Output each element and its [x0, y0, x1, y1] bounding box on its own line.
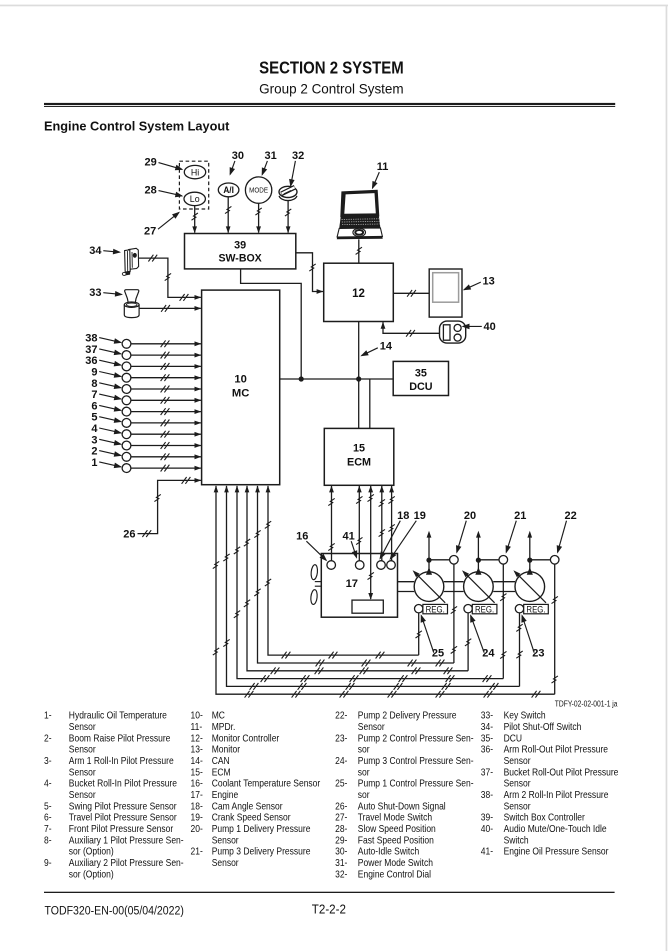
svg-text:Bucket Roll-Out Pilot Pressure: Bucket Roll-Out Pilot Pressure	[504, 767, 619, 778]
svg-text:Auxiliary 1 Pilot Pressure Sen: Auxiliary 1 Pilot Pressure Sen-	[69, 835, 184, 846]
footer document number	[45, 905, 185, 918]
svg-text:24: 24	[482, 647, 495, 659]
label 5	[91, 412, 122, 424]
svg-text:8: 8	[91, 378, 97, 390]
svg-text:29: 29	[145, 156, 157, 168]
sensor circle 3	[122, 441, 131, 450]
svg-text:33-: 33-	[481, 710, 493, 721]
svg-text:REG.: REG.	[526, 604, 545, 615]
svg-text:17: 17	[346, 578, 358, 590]
wire sensor 37 to MC	[131, 352, 201, 359]
svg-text:Pilot Shut-Off Switch: Pilot Shut-Off Switch	[504, 721, 582, 732]
audio mute switch icon 40	[440, 321, 466, 343]
svg-text:7-: 7-	[44, 823, 52, 834]
label 6	[91, 400, 122, 412]
svg-text:36: 36	[85, 355, 97, 367]
svg-text:Slow Speed Position: Slow Speed Position	[358, 823, 436, 834]
svg-text:sor (Option): sor (Option)	[69, 846, 114, 857]
svg-text:23-: 23-	[335, 733, 347, 744]
svg-text:30: 30	[232, 150, 244, 162]
svg-text:ECM: ECM	[347, 456, 371, 468]
svg-text:MODE: MODE	[249, 187, 268, 195]
svg-text:Sensor: Sensor	[212, 835, 239, 846]
pressure sensor circle 21	[499, 556, 508, 565]
label 2	[91, 446, 122, 458]
svg-text:CAN: CAN	[212, 755, 230, 766]
svg-text:Pump 3 Delivery Pressure: Pump 3 Delivery Pressure	[212, 846, 311, 857]
svg-text:7: 7	[91, 389, 97, 401]
svg-text:Pump 3 Control Pressure Sen-: Pump 3 Control Pressure Sen-	[358, 755, 474, 766]
svg-text:Engine Control Dial: Engine Control Dial	[358, 869, 431, 880]
pump drive shaft lines	[398, 582, 516, 592]
svg-text:Sensor: Sensor	[69, 767, 96, 778]
svg-text:5-: 5-	[44, 801, 52, 812]
svg-text:Power Mode Switch: Power Mode Switch	[358, 857, 433, 868]
wire 12 to monitor 13	[393, 290, 429, 297]
svg-text:31-: 31-	[335, 857, 347, 868]
svg-text:Monitor: Monitor	[212, 744, 240, 755]
regulator circle pump 2	[464, 605, 472, 613]
wire Lo switch to SW-BOX	[192, 206, 198, 234]
svg-text:12: 12	[352, 288, 365, 300]
svg-text:34: 34	[89, 245, 102, 257]
svg-text:16-: 16-	[191, 778, 203, 789]
svg-text:Pump 2 Delivery Pressure: Pump 2 Delivery Pressure	[358, 710, 457, 721]
label 37	[85, 344, 122, 356]
svg-text:8-: 8-	[44, 835, 52, 846]
wire sensor 5 to MC	[131, 420, 201, 427]
svg-text:Lo: Lo	[190, 194, 200, 204]
svg-text:11: 11	[377, 161, 389, 173]
laptop MPDr 11	[337, 190, 383, 239]
svg-text:Key Switch: Key Switch	[504, 710, 546, 721]
wire SW-BOX bottom to node A	[241, 269, 302, 379]
svg-text:38: 38	[85, 333, 97, 345]
svg-text:41-: 41-	[481, 846, 493, 857]
svg-text:Auxiliary 2 Pilot Pressure Sen: Auxiliary 2 Pilot Pressure Sen-	[69, 857, 184, 868]
cooling fan	[310, 564, 321, 604]
footer page number	[312, 902, 346, 917]
svg-text:10-: 10-	[191, 710, 203, 721]
svg-text:Sensor: Sensor	[358, 721, 385, 732]
svg-text:Hydraulic Oil Temperature: Hydraulic Oil Temperature	[69, 710, 167, 721]
harness bus wire 1 MC to pump area	[265, 486, 419, 659]
label 16	[296, 531, 327, 562]
svg-text:Engine Control System Layout: Engine Control System Layout	[44, 118, 230, 133]
footer rule	[44, 892, 615, 893]
svg-text:Audio Mute/One-Touch Idle: Audio Mute/One-Touch Idle	[504, 823, 607, 834]
svg-text:Auto Shut-Down Signal: Auto Shut-Down Signal	[358, 801, 446, 812]
wire 40 to 12	[381, 322, 440, 337]
svg-text:Fast Speed Position: Fast Speed Position	[358, 835, 434, 846]
svg-text:10: 10	[234, 373, 246, 385]
regulator circle pump 3	[515, 605, 523, 613]
wire CAN 14 from 12 to ECM	[358, 322, 360, 429]
wire sensor 22 down to bus	[552, 564, 558, 694]
label 30	[230, 150, 244, 176]
svg-text:41: 41	[342, 531, 354, 543]
node B junction dot	[356, 376, 361, 381]
wire laptop to monitor controller 12	[356, 239, 362, 263]
svg-text:23: 23	[532, 647, 544, 659]
wire dial 32 to SW-BOX	[285, 200, 291, 233]
wire A/I to SW-BOX	[225, 197, 231, 233]
label 13	[463, 275, 495, 290]
svg-text:Engine: Engine	[212, 789, 238, 800]
harness bus wire 3 MC to pump area	[244, 486, 468, 675]
svg-text:REG.: REG.	[475, 604, 494, 615]
svg-text:37: 37	[85, 344, 97, 356]
sensor circle 1	[122, 464, 131, 473]
svg-text:20: 20	[464, 510, 476, 522]
svg-text:Front Pilot Pressure Sensor: Front Pilot Pressure Sensor	[69, 823, 173, 834]
svg-text:Sensor: Sensor	[504, 755, 531, 766]
key switch icon 33	[124, 290, 139, 318]
sensor circle 6	[122, 407, 131, 416]
sensor circle 5	[122, 419, 131, 428]
svg-text:Bucket Roll-In Pilot Pressure: Bucket Roll-In Pilot Pressure	[69, 778, 177, 789]
label 41	[342, 531, 357, 559]
harness bus wire 5 MC to pump area	[223, 486, 519, 690]
wire sensor 9 to MC	[131, 374, 201, 381]
svg-text:40: 40	[484, 321, 496, 333]
svg-text:A/I: A/I	[223, 185, 234, 196]
svg-text:Pump 1 Control Pressure Sen-: Pump 1 Control Pressure Sen-	[358, 778, 474, 789]
svg-text:Sensor: Sensor	[69, 789, 96, 800]
svg-text:3-: 3-	[44, 755, 52, 766]
label 22	[557, 510, 577, 554]
label 38	[85, 333, 122, 345]
svg-text:26-: 26-	[335, 801, 347, 812]
svg-text:19-: 19-	[191, 812, 203, 823]
svg-text:25: 25	[432, 647, 444, 659]
svg-text:TODF320-EN-00(05/04/2022): TODF320-EN-00(05/04/2022)	[45, 905, 185, 918]
svg-text:30-: 30-	[335, 846, 347, 857]
label 21	[506, 510, 527, 554]
svg-text:31: 31	[264, 150, 276, 162]
wire sensor 6 to MC	[131, 408, 201, 415]
svg-text:Travel Mode Switch: Travel Mode Switch	[358, 812, 432, 823]
svg-text:Travel Pilot Pressure Sensor: Travel Pilot Pressure Sensor	[69, 812, 177, 823]
wire sensor 20 down to bus	[451, 564, 457, 663]
svg-text:22: 22	[564, 510, 576, 522]
svg-text:28: 28	[145, 184, 157, 196]
svg-text:38-: 38-	[481, 789, 493, 800]
svg-text:Arm 1 Roll-In Pilot Pressure: Arm 1 Roll-In Pilot Pressure	[69, 755, 174, 766]
wire sensor 8 to MC	[131, 386, 201, 393]
Hi button ellipse	[184, 165, 205, 178]
svg-text:37-: 37-	[481, 767, 493, 778]
SW-BOX controller box 39	[185, 234, 296, 269]
figure code	[555, 699, 618, 709]
svg-text:sor: sor	[358, 789, 370, 800]
svg-text:4-: 4-	[44, 778, 52, 789]
sensor circle 4	[122, 430, 131, 439]
wire sensor 1 to MC	[131, 465, 201, 472]
wire sensor 3 to MC	[131, 442, 201, 449]
label 33	[89, 287, 123, 299]
sensor circle 2	[122, 452, 131, 461]
svg-text:Switch: Switch	[504, 835, 529, 846]
wire pump 3 node to sensor 22	[530, 559, 551, 561]
svg-text:sor (Option): sor (Option)	[69, 869, 114, 880]
REG box pump 2	[472, 604, 497, 615]
svg-text:Crank Speed Sensor: Crank Speed Sensor	[212, 812, 291, 823]
svg-text:Sensor: Sensor	[504, 801, 531, 812]
pump 2 node dot	[476, 558, 481, 563]
wire ECM to 16 coolant temp	[328, 486, 334, 561]
svg-text:Switch Box Controller: Switch Box Controller	[504, 812, 585, 823]
label 29	[145, 156, 184, 170]
MODE switch 31	[245, 177, 271, 203]
pump 2 circle	[464, 572, 494, 602]
label 4	[91, 423, 122, 435]
A/I switch 30	[218, 183, 239, 197]
wire ECM to injector	[368, 486, 374, 600]
svg-text:13-: 13-	[191, 744, 203, 755]
pump 2 displacement arrow	[462, 570, 495, 603]
svg-text:25-: 25-	[335, 778, 347, 789]
engine injector rect	[352, 600, 383, 613]
svg-text:11-: 11-	[191, 721, 203, 732]
svg-text:T2-2-2: T2-2-2	[312, 902, 346, 917]
wire sensor 2 to MC	[131, 453, 201, 460]
label 31	[262, 150, 277, 176]
svg-text:15: 15	[353, 443, 365, 455]
label 40	[462, 321, 496, 333]
engine sensor circle 18	[377, 561, 386, 570]
svg-text:Engine Oil Pressure Sensor: Engine Oil Pressure Sensor	[504, 846, 609, 857]
wire 33 to MC	[139, 305, 201, 312]
monitor controller box 12	[324, 263, 394, 321]
wire regulator pump 1 down to bus	[416, 613, 422, 655]
label 25	[421, 614, 444, 659]
svg-text:Sensor: Sensor	[69, 744, 96, 755]
label 20	[456, 510, 476, 554]
header double rule	[44, 103, 615, 107]
pilot shut-off switch icon 34	[122, 248, 138, 275]
svg-text:40-: 40-	[481, 823, 493, 834]
svg-text:9: 9	[91, 367, 97, 379]
label 7	[91, 389, 122, 401]
svg-text:TDFY-02-02-001-1 ja: TDFY-02-02-001-1 ja	[555, 699, 618, 709]
svg-text:35-: 35-	[481, 733, 493, 744]
svg-text:Arm 2 Roll-In Pilot Pressure: Arm 2 Roll-In Pilot Pressure	[504, 789, 609, 800]
svg-text:Sensor: Sensor	[212, 857, 239, 868]
monitor 13	[429, 269, 462, 317]
label 9	[91, 367, 122, 379]
pump 3 node dot	[527, 558, 532, 563]
svg-text:MPDr.: MPDr.	[212, 721, 236, 732]
label 23	[521, 614, 544, 659]
engine sensor circle 16	[327, 561, 336, 570]
svg-text:1-: 1-	[44, 710, 52, 721]
ECM box 15	[324, 428, 394, 485]
svg-text:33: 33	[89, 287, 101, 299]
sensor circle 8	[122, 385, 131, 394]
harness bus wire 4 MC to pump area	[234, 486, 504, 682]
wire sensor 38 to MC	[131, 340, 201, 347]
svg-text:2: 2	[91, 446, 97, 458]
svg-text:SW-BOX: SW-BOX	[218, 253, 262, 265]
svg-text:14-: 14-	[191, 755, 203, 766]
svg-text:35: 35	[415, 367, 427, 379]
extra slash on coolant wire	[328, 543, 334, 550]
wire ECM to 19 crank speed	[388, 486, 394, 561]
svg-text:13: 13	[483, 275, 495, 287]
REG box pump 3	[524, 604, 549, 615]
label 18	[380, 510, 410, 560]
svg-text:Pump 1 Delivery Pressure: Pump 1 Delivery Pressure	[212, 823, 311, 834]
svg-text:39-: 39-	[481, 812, 493, 823]
wire MODE to SW-BOX	[255, 204, 261, 234]
svg-text:18: 18	[397, 510, 409, 522]
wire sensor 21 down to bus	[500, 564, 506, 679]
svg-text:2-: 2-	[44, 733, 52, 744]
sensor circle 37	[122, 351, 131, 360]
node A junction dot	[299, 376, 304, 381]
regulator circle pump 1	[415, 605, 423, 613]
engine box 17	[321, 554, 397, 618]
wire SW-BOX to 12	[296, 253, 324, 294]
label 26	[123, 529, 135, 541]
page heading Engine Control System Layout	[44, 118, 230, 133]
label 36	[85, 355, 122, 367]
label 14	[360, 341, 393, 357]
svg-text:MC: MC	[212, 710, 226, 721]
label 32	[289, 150, 304, 188]
wire sensor 4 to MC	[131, 431, 201, 438]
svg-text:6-: 6-	[44, 812, 52, 823]
pump 3 displacement arrow	[513, 570, 546, 603]
svg-text:36-: 36-	[481, 744, 493, 755]
svg-text:19: 19	[414, 510, 426, 522]
svg-text:Cam Angle Sensor: Cam Angle Sensor	[212, 801, 283, 812]
svg-text:20-: 20-	[191, 823, 203, 834]
svg-text:3: 3	[91, 434, 97, 446]
svg-text:SECTION 2 SYSTEM: SECTION 2 SYSTEM	[259, 59, 404, 78]
wire regulator pump 2 down to bus	[465, 613, 471, 671]
svg-text:4: 4	[91, 423, 98, 435]
label 1	[91, 457, 122, 469]
svg-text:12-: 12-	[191, 733, 203, 744]
MC box 10	[202, 290, 280, 485]
svg-text:6: 6	[91, 400, 97, 412]
svg-text:5: 5	[91, 412, 97, 424]
wire sensor 36 to MC	[131, 363, 201, 370]
label 3	[91, 434, 122, 446]
svg-text:Boom Raise Pilot Pressure: Boom Raise Pilot Pressure	[69, 733, 171, 744]
label 8	[91, 378, 122, 390]
svg-text:34-: 34-	[481, 721, 493, 732]
svg-text:32-: 32-	[335, 869, 347, 880]
svg-text:16: 16	[296, 531, 308, 543]
svg-text:REG.: REG.	[426, 604, 445, 615]
DCU box 35	[393, 361, 448, 395]
svg-text:sor: sor	[358, 744, 370, 755]
wire auto shut-down 26 to MC	[138, 477, 202, 537]
svg-text:Sensor: Sensor	[69, 721, 96, 732]
svg-text:1: 1	[91, 457, 97, 469]
label 28	[145, 184, 184, 197]
legend	[44, 710, 618, 879]
label 19	[390, 510, 426, 560]
pressure sensor circle 20	[450, 556, 459, 565]
pump 1 output line	[426, 531, 432, 575]
wire regulator pump 3 down to bus	[516, 613, 522, 687]
label 11	[372, 161, 389, 189]
svg-text:9-: 9-	[44, 857, 52, 868]
svg-text:Group 2 Control System: Group 2 Control System	[259, 80, 403, 96]
svg-text:27: 27	[144, 225, 156, 237]
svg-text:24-: 24-	[335, 755, 347, 766]
svg-text:18-: 18-	[191, 801, 203, 812]
svg-text:Auto-Idle Switch: Auto-Idle Switch	[358, 846, 419, 857]
svg-text:29-: 29-	[335, 835, 347, 846]
wire sensor 7 to MC	[131, 397, 201, 404]
svg-text:sor: sor	[358, 767, 370, 778]
svg-text:32: 32	[292, 150, 304, 162]
harness bus wire 6 MC to pump area	[213, 486, 555, 698]
engine sensor circle 19	[387, 561, 396, 570]
svg-text:21-: 21-	[191, 846, 203, 857]
wire pump 2 node to sensor 21	[478, 559, 499, 561]
svg-text:MC: MC	[232, 387, 249, 399]
svg-text:26: 26	[123, 529, 135, 541]
sensor circle 38	[122, 339, 131, 348]
svg-text:27-: 27-	[335, 812, 347, 823]
REG box pump 1	[423, 604, 448, 615]
wire 34 to MC	[139, 255, 202, 301]
harness bus wire 2 MC to pump area	[254, 486, 454, 667]
pump 1 displacement arrow	[413, 570, 446, 603]
wire pump 1 node to sensor 20	[429, 559, 450, 561]
pump 3 output line	[527, 531, 533, 575]
svg-text:14: 14	[380, 341, 393, 353]
wire MC to DCU horizontal	[280, 378, 394, 380]
header section title	[259, 59, 404, 78]
label 34	[89, 245, 121, 257]
svg-text:Hi: Hi	[191, 167, 199, 177]
pump 1 node dot	[426, 558, 431, 563]
svg-text:39: 39	[234, 240, 246, 252]
svg-text:Pump 2 Control Pressure Sen-: Pump 2 Control Pressure Sen-	[358, 733, 474, 744]
engine sensor circle 41	[355, 561, 364, 570]
header group subtitle	[259, 80, 403, 96]
svg-text:21: 21	[514, 510, 526, 522]
wire ECM to 41 oil pressure	[356, 486, 362, 561]
svg-text:28-: 28-	[335, 823, 347, 834]
svg-text:Monitor Controller: Monitor Controller	[212, 733, 280, 744]
wire DCU drop to ECM	[369, 379, 371, 428]
pressure sensor circle 22	[550, 556, 559, 565]
sensor circle 7	[122, 396, 131, 405]
Lo button ellipse	[184, 192, 205, 205]
engine control dial 32	[279, 186, 297, 200]
svg-text:Coolant Temperature Sensor: Coolant Temperature Sensor	[212, 778, 321, 789]
svg-text:17-: 17-	[191, 789, 203, 800]
pump 2 output line	[475, 531, 481, 575]
svg-text:Arm Roll-Out Pilot Pressure: Arm Roll-Out Pilot Pressure	[504, 744, 608, 755]
svg-text:Sensor: Sensor	[504, 778, 531, 789]
sensor circle 36	[122, 362, 131, 371]
label 27	[144, 212, 180, 238]
svg-text:ECM: ECM	[212, 767, 231, 778]
pump 3 circle	[515, 572, 545, 602]
dashed box 27 travel mode switch group	[179, 161, 208, 209]
svg-text:DCU: DCU	[504, 733, 522, 744]
sensor circle 9	[122, 373, 131, 382]
